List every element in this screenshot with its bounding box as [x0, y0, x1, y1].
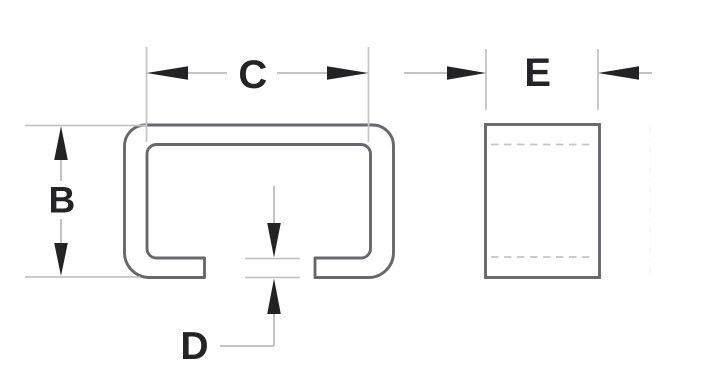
arrowhead E right	[598, 66, 639, 80]
extension line C right	[368, 47, 370, 142]
extension line D bottom	[245, 277, 300, 279]
dimension line C right segment	[277, 72, 328, 74]
arrowhead C left	[147, 66, 189, 80]
hidden line top	[491, 144, 595, 146]
centerline (faint red)	[649, 126, 651, 274]
extension line D top	[245, 258, 300, 260]
label E	[527, 58, 549, 86]
extension line B top	[25, 125, 146, 127]
extension line B bottom	[25, 276, 140, 278]
label D	[183, 332, 207, 359]
label B	[51, 187, 74, 212]
extension line E right	[597, 49, 599, 110]
arrowhead B up	[54, 126, 68, 160]
arrowhead D up	[267, 279, 281, 315]
leader line D	[220, 345, 274, 347]
extension line E left	[485, 49, 487, 110]
C-channel profile outline	[125, 125, 394, 278]
dimension line D upper segment	[273, 186, 275, 224]
arrowhead B down	[54, 243, 68, 276]
dimension line C left segment	[187, 72, 227, 74]
extension line C left	[146, 47, 148, 142]
arrowhead D down	[267, 223, 281, 258]
hidden line bottom	[491, 256, 595, 258]
arrowhead E left	[447, 66, 486, 80]
label C	[240, 60, 266, 88]
side view rectangle	[486, 125, 600, 278]
arrowhead C right	[327, 66, 369, 80]
dimension tail E left	[404, 72, 448, 74]
dimension line B lower segment	[60, 219, 62, 244]
dimension tail E right	[639, 72, 652, 74]
dimension line B upper segment	[60, 158, 62, 181]
dimension line D lower segment	[273, 314, 275, 346]
